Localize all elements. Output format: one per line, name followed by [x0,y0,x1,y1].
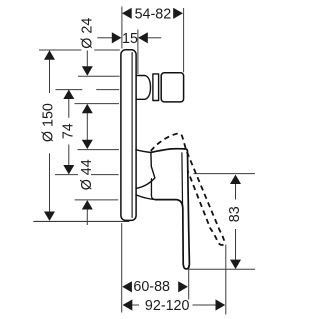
svg-text:15: 15 [122,31,138,47]
svg-text:83: 83 [227,206,243,222]
svg-text:Ø 44: Ø 44 [79,159,95,190]
svg-text:Ø 150: Ø 150 [41,103,57,142]
svg-text:Ø 24: Ø 24 [79,18,95,49]
svg-text:54-82: 54-82 [135,6,172,22]
svg-text:60-88: 60-88 [133,279,170,295]
svg-text:74: 74 [61,123,77,139]
svg-text:92-120: 92-120 [145,298,190,314]
